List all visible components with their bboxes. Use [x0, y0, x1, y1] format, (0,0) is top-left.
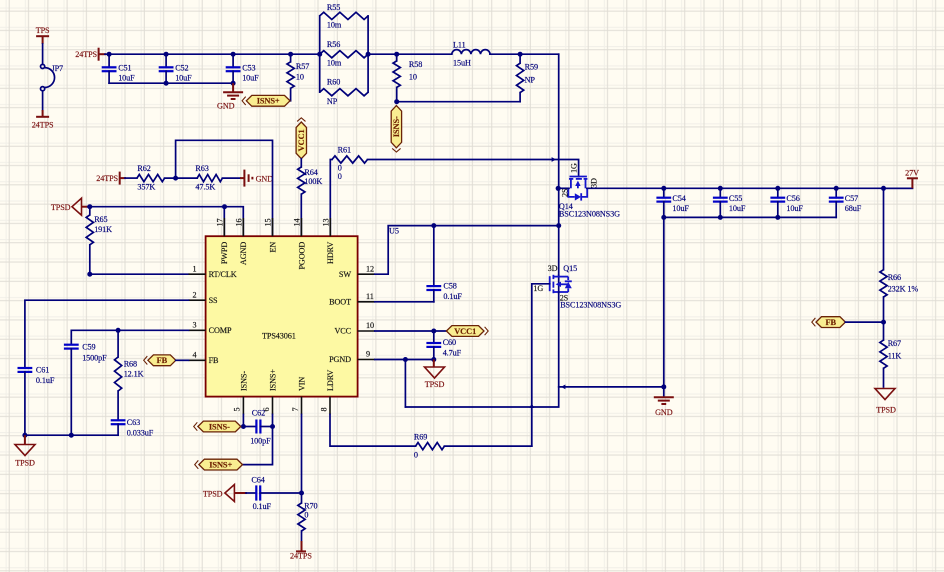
node pin6 junction: [270, 424, 275, 429]
resistor R57: [290, 54, 292, 62]
wire cap bottom rail: [109, 82, 233, 84]
svg-text:SS: SS: [209, 296, 218, 305]
pin 13 HDRV: [329, 218, 331, 236]
resistor R65: [89, 207, 91, 215]
svg-text:GND: GND: [217, 102, 235, 111]
svg-text:232K 1%: 232K 1%: [888, 284, 919, 293]
port ISNS+: [199, 459, 243, 470]
svg-text:0.1uF: 0.1uF: [443, 292, 462, 301]
svg-text:8: 8: [319, 408, 328, 412]
svg-text:10uF: 10uF: [672, 204, 689, 213]
svg-text:TPS: TPS: [36, 26, 50, 35]
pin 6 ISNS+: [272, 397, 274, 415]
capacitor C60: [433, 331, 435, 343]
svg-text:VIN: VIN: [297, 377, 306, 391]
resistor R59: [519, 54, 521, 63]
svg-text:C60: C60: [443, 338, 456, 347]
port FB: [816, 317, 845, 328]
svg-text:TPSD: TPSD: [51, 203, 71, 212]
pin 10 VCC: [358, 330, 375, 332]
svg-text:191K: 191K: [94, 225, 112, 234]
wire PGND down: [404, 360, 406, 408]
svg-text:SW: SW: [339, 270, 351, 279]
resistor R70: [301, 493, 303, 503]
svg-text:10uF: 10uF: [729, 204, 746, 213]
transistor Q14: [570, 176, 587, 178]
pin 7 VIN: [301, 397, 303, 415]
resistor R68: [117, 330, 119, 357]
svg-text:ISNS+: ISNS+: [257, 97, 280, 106]
svg-text:24TPS: 24TPS: [96, 174, 118, 183]
svg-text:2: 2: [193, 290, 197, 299]
wire HDRV: [330, 160, 332, 237]
capacitor C63: [111, 419, 126, 421]
svg-text:R65: R65: [94, 215, 107, 224]
svg-text:357K: 357K: [137, 182, 155, 191]
body diode Q15: [567, 277, 569, 280]
wire HDRV to Q14 gate: [368, 160, 579, 177]
wire SW net: [375, 226, 559, 275]
svg-text:C55: C55: [729, 194, 742, 203]
capacitor C51: [108, 54, 110, 67]
svg-text:C57: C57: [845, 194, 858, 203]
svg-text:VCC: VCC: [334, 327, 351, 336]
svg-text:PWPD: PWPD: [220, 242, 229, 265]
svg-text:R61: R61: [338, 145, 351, 154]
svg-text:C63: C63: [127, 418, 140, 427]
node ISNS- junction: [394, 99, 399, 104]
svg-text:10m: 10m: [327, 21, 342, 30]
svg-text:PGND: PGND: [329, 355, 351, 364]
body diode Q14: [568, 188, 575, 197]
svg-text:3D: 3D: [590, 178, 599, 188]
wire SS net: [25, 300, 189, 368]
svg-text:Q15: Q15: [563, 264, 577, 273]
node C58 top: [431, 223, 436, 228]
svg-text:BSC123N08NS3G: BSC123N08NS3G: [559, 209, 620, 218]
svg-text:10uF: 10uF: [118, 74, 135, 83]
wire: [42, 91, 44, 110]
svg-text:R59: R59: [525, 63, 538, 72]
wire: [176, 359, 189, 361]
svg-text:LDRV: LDRV: [326, 370, 335, 391]
resistor R63: [197, 175, 222, 182]
svg-text:100pF: 100pF: [250, 437, 271, 446]
svg-text:4.7uF: 4.7uF: [443, 349, 462, 358]
svg-text:0: 0: [338, 172, 342, 181]
power port 24TPS: [119, 172, 121, 185]
svg-text:12: 12: [366, 264, 374, 273]
wire LDRV: [330, 415, 416, 447]
node R66 junction: [881, 186, 886, 191]
node FB junction: [881, 320, 886, 325]
resistor R69: [416, 443, 445, 450]
ground GND bar style: [243, 170, 245, 187]
power port 27V: [884, 187, 913, 189]
svg-text:NP: NP: [327, 97, 338, 106]
wire GND vertical: [663, 217, 665, 396]
pin 1 RT/CLK: [189, 273, 206, 275]
wire EN net: [176, 140, 273, 236]
resistor R55: [320, 12, 368, 19]
svg-text:15uH: 15uH: [453, 58, 471, 67]
svg-text:0.1uF: 0.1uF: [36, 376, 55, 385]
capacitor C53: [232, 54, 234, 67]
wire BOOT net: [375, 301, 434, 303]
svg-text:16: 16: [234, 219, 243, 227]
resistor R67: [883, 322, 885, 340]
svg-text:0.033uF: 0.033uF: [127, 428, 154, 437]
svg-text:ISNS-: ISNS-: [392, 116, 401, 137]
svg-text:10uF: 10uF: [175, 74, 192, 83]
svg-text:4: 4: [193, 351, 197, 360]
jumper JP7: [41, 64, 45, 68]
svg-text:13: 13: [321, 219, 330, 227]
wire: [42, 44, 44, 64]
resistor R62: [137, 175, 165, 182]
wire pin17: [223, 207, 225, 237]
svg-text:COMP: COMP: [209, 326, 232, 335]
wire: [222, 177, 240, 179]
svg-text:24TPS: 24TPS: [32, 120, 54, 129]
svg-text:R58: R58: [409, 60, 422, 69]
sense resistor block bus: [319, 16, 321, 92]
capacitor C57: [834, 186, 839, 191]
wire: [490, 53, 559, 55]
pin 14 PGOOD: [300, 218, 302, 236]
svg-text:BSC123N08NS3G: BSC123N08NS3G: [560, 301, 621, 310]
power port TPSD: [24, 435, 26, 444]
svg-text:C52: C52: [175, 64, 188, 73]
svg-text:TPSD: TPSD: [425, 380, 445, 389]
wire source to GND rail: [559, 386, 664, 388]
wire: [845, 321, 883, 323]
svg-text:TPS43061: TPS43061: [262, 331, 296, 340]
wire SW to Q15 drain: [558, 275, 560, 293]
svg-text:1G: 1G: [570, 163, 579, 173]
power port TPSD: [225, 485, 235, 502]
wire: [88, 206, 225, 208]
svg-text:PGOOD: PGOOD: [297, 242, 306, 270]
node Q14 source junction: [556, 186, 561, 191]
port VCC1 vertical: [296, 122, 306, 159]
svg-text:R56: R56: [327, 40, 340, 49]
svg-text:ISNS+: ISNS+: [268, 369, 277, 391]
pin 5 ISNS-: [242, 397, 244, 415]
svg-text:0: 0: [414, 450, 418, 459]
resistor R61: [332, 156, 368, 163]
transistor Q15: [549, 276, 551, 291]
svg-text:3D: 3D: [548, 264, 558, 273]
svg-text:2S: 2S: [561, 188, 570, 197]
wire: [125, 177, 137, 179]
wire SW vertical: [558, 54, 560, 188]
svg-text:10: 10: [296, 72, 304, 81]
power port TPS: [36, 35, 49, 37]
wire Q14 source: [558, 187, 569, 189]
svg-text:HDRV: HDRV: [326, 242, 335, 264]
svg-text:5: 5: [233, 408, 242, 412]
svg-text:R66: R66: [888, 273, 901, 282]
svg-text:JP7: JP7: [52, 64, 64, 73]
svg-text:1: 1: [193, 264, 197, 273]
svg-text:15: 15: [264, 219, 273, 227]
svg-text:3: 3: [193, 321, 197, 330]
pin 17 PWPD: [223, 218, 225, 236]
svg-text:11: 11: [366, 292, 374, 301]
wire: [368, 53, 452, 55]
svg-text:TPSD: TPSD: [203, 490, 223, 499]
pin 16 AGND: [242, 218, 244, 236]
svg-text:C54: C54: [672, 194, 685, 203]
port ISNS-: [391, 106, 401, 148]
svg-text:10: 10: [366, 321, 374, 330]
wire PGND net: [375, 359, 434, 361]
pin 8 LDRV: [329, 397, 331, 415]
svg-text:R67: R67: [888, 339, 901, 348]
capacitor C54: [661, 186, 666, 191]
svg-text:24TPS: 24TPS: [290, 551, 312, 560]
wire output cap bottom rail: [664, 216, 836, 218]
wire pin1 net: [90, 273, 189, 275]
wire R69 to Q15 gate: [444, 445, 531, 447]
port ISNS-: [198, 421, 241, 432]
junction arrow mark: [552, 157, 556, 162]
svg-text:GND: GND: [256, 174, 274, 183]
pin 2 SS: [189, 299, 206, 301]
svg-text:10uF: 10uF: [242, 74, 259, 83]
node C64 junction: [299, 491, 304, 496]
svg-text:FB: FB: [825, 318, 836, 327]
svg-text:FB: FB: [157, 356, 168, 365]
svg-text:1500pF: 1500pF: [82, 354, 107, 363]
ground GND: [654, 396, 674, 398]
svg-text:AGND: AGND: [239, 242, 248, 265]
svg-text:VCC1: VCC1: [454, 327, 476, 336]
svg-text:TPSD: TPSD: [15, 459, 35, 468]
resistor R58: [396, 54, 398, 61]
svg-text:R55: R55: [327, 3, 340, 12]
power port TPSD: [875, 389, 895, 400]
pin 11 BOOT: [358, 301, 375, 303]
svg-text:ISNS-: ISNS-: [209, 422, 230, 431]
svg-text:17: 17: [215, 219, 224, 227]
pin 9 PGND: [358, 359, 375, 361]
svg-text:R60: R60: [327, 77, 340, 86]
capacitor C55: [718, 186, 723, 191]
svg-text:TPSD: TPSD: [876, 405, 896, 414]
svg-text:FB: FB: [209, 356, 219, 365]
wire AGND to pin16: [225, 207, 244, 237]
svg-text:EN: EN: [268, 242, 277, 253]
svg-text:R69: R69: [414, 432, 427, 441]
svg-text:14: 14: [292, 219, 301, 227]
node SW join: [556, 223, 561, 228]
svg-text:C61: C61: [36, 366, 49, 375]
capacitor C59: [64, 344, 79, 346]
wire comp ground rail: [25, 434, 118, 436]
svg-text:RT/CLK: RT/CLK: [209, 270, 237, 279]
svg-text:47.5K: 47.5K: [195, 182, 215, 191]
svg-text:ISNS-: ISNS-: [239, 371, 248, 391]
capacitor C61: [18, 367, 33, 369]
capacitor C64: [234, 492, 247, 494]
pin 4 FB: [189, 359, 206, 361]
svg-text:10m: 10m: [327, 59, 342, 68]
node R62/R63 junction: [173, 176, 178, 181]
node R68 top: [116, 328, 121, 333]
svg-text:C64: C64: [251, 476, 264, 485]
power port 24TPS: [98, 48, 100, 61]
wire sense return: [397, 101, 520, 103]
wire pin5: [242, 415, 244, 427]
op-amp U5 TPS43061 body: [206, 236, 358, 396]
resistor R64: [300, 159, 302, 167]
svg-text:24TPS: 24TPS: [75, 50, 97, 59]
svg-text:BOOT: BOOT: [329, 297, 351, 306]
svg-text:R57: R57: [296, 62, 309, 71]
svg-text:7: 7: [291, 408, 300, 412]
svg-text:R70: R70: [304, 501, 317, 510]
svg-text:C59: C59: [82, 342, 95, 351]
power port TPSD: [72, 198, 82, 215]
node: input rail junctions: [107, 52, 112, 57]
svg-text:0: 0: [304, 511, 308, 520]
power port TPSD: [433, 360, 435, 367]
svg-text:C58: C58: [443, 282, 456, 291]
svg-text:10uF: 10uF: [786, 204, 803, 213]
wire top input rail: [105, 53, 320, 55]
port ISNS+: [246, 95, 290, 106]
power port 24TPS: [301, 531, 303, 541]
svg-text:11K: 11K: [888, 351, 902, 360]
pin 3 COMP: [189, 329, 206, 331]
node pin17 junction: [222, 204, 227, 209]
svg-text:U5: U5: [389, 227, 399, 236]
wire pin6 to ISNS+: [243, 415, 273, 465]
inductor L11: [452, 50, 490, 55]
svg-text:VCC1: VCC1: [297, 129, 306, 151]
svg-text:1G: 1G: [533, 284, 543, 293]
wire: [165, 177, 198, 179]
capacitor C62: [243, 426, 256, 428]
svg-text:68uF: 68uF: [845, 204, 862, 213]
svg-text:NP: NP: [525, 75, 536, 84]
resistor R60: [320, 89, 368, 96]
svg-text:R62: R62: [137, 164, 150, 173]
svg-text:0.1uF: 0.1uF: [253, 502, 272, 511]
svg-text:C51: C51: [118, 64, 131, 73]
wire VIN vertical: [301, 415, 303, 494]
svg-text:C62: C62: [252, 408, 265, 417]
wire COMP net: [71, 330, 188, 344]
wire output rail: [587, 187, 913, 189]
capacitor C56: [775, 186, 780, 191]
wire SW vertical lower: [558, 188, 560, 275]
pin 15 EN: [272, 218, 274, 236]
capacitor C58: [433, 226, 435, 287]
node pin5 junction: [241, 424, 246, 429]
port FB: [148, 355, 176, 366]
resistor R56: [320, 51, 368, 58]
svg-text:ISNS+: ISNS+: [209, 461, 232, 470]
svg-text:27V: 27V: [905, 168, 919, 177]
svg-text:L11: L11: [453, 40, 466, 49]
port VCC1: [446, 326, 484, 337]
svg-text:R64: R64: [304, 168, 317, 177]
resistor R66: [883, 188, 885, 269]
svg-text:100K: 100K: [304, 177, 322, 186]
power port 24TPS: [36, 116, 49, 118]
pin 12 SW: [358, 273, 375, 275]
svg-text:12.1K: 12.1K: [124, 369, 144, 378]
node GND rail junction: [661, 384, 666, 389]
svg-text:GND: GND: [655, 408, 673, 417]
wire Q15 gate: [532, 284, 550, 446]
svg-text:C56: C56: [786, 194, 799, 203]
svg-text:10: 10: [409, 73, 417, 82]
junction arrow marks: [561, 385, 565, 390]
svg-text:C53: C53: [242, 64, 255, 73]
node R65 top: [87, 204, 92, 209]
wire Q15 source down: [405, 292, 558, 407]
svg-text:9: 9: [366, 350, 370, 359]
svg-text:R63: R63: [195, 164, 208, 173]
capacitor C52: [165, 54, 167, 67]
svg-text:R68: R68: [124, 359, 137, 368]
ground GND under C53: [232, 83, 234, 92]
wire VCC net: [375, 330, 447, 332]
node VCC junction: [431, 329, 436, 334]
